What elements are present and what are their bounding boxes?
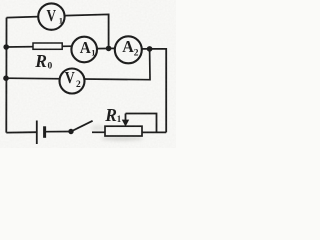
- resistor R0 label: [34, 51, 52, 71]
- wire: R1 right end to right rail: [142, 131, 167, 133]
- paper noise overlay: [0, 0, 176, 148]
- node: junction between A1 and A2: [106, 46, 112, 52]
- ammeter A1: [71, 37, 97, 63]
- wire: top-left horizontal from left rail to V1: [7, 17, 39, 18]
- wire: battery to switch pivot: [45, 131, 71, 133]
- battery: short thick plate: [43, 126, 46, 138]
- scan smudge under rheostat R1: [101, 136, 143, 140]
- node: junction on left rail at R0 branch: [3, 44, 9, 50]
- rheostat R1 body: [105, 126, 142, 136]
- wire: A2 to right junction and right corner, down right rail: [142, 49, 166, 132]
- voltmeter V1: [38, 3, 64, 29]
- wire: slider to right end bracket: [126, 114, 157, 133]
- battery: long plate: [36, 121, 38, 145]
- switch pivot dot: [68, 129, 73, 134]
- wire: bottom left from rail to battery: [6, 131, 37, 133]
- wire: R0 branch from left rail to A1: [6, 45, 71, 48]
- wire: left vertical rail: [5, 18, 7, 133]
- rheostat R1 label: [104, 105, 122, 125]
- wire: V1 to top-right corner and down to A1-A2 junction: [64, 14, 108, 48]
- switch lever (open): [71, 121, 93, 132]
- ammeter A2: [115, 36, 142, 63]
- wire: V2 branch from left rail through V2 up to right junction: [6, 49, 150, 80]
- resistor R0 body: [33, 43, 62, 49]
- wire: A1 to A2: [97, 47, 115, 49]
- scan smudge near switch contact: [91, 125, 105, 131]
- node: junction on left rail at V2 branch: [3, 75, 9, 81]
- voltmeter V2: [60, 68, 85, 93]
- node: junction right of A2: [147, 46, 153, 52]
- rheostat R1 slider arrow: [122, 114, 129, 127]
- wire: switch fixed contact to R1: [92, 131, 106, 133]
